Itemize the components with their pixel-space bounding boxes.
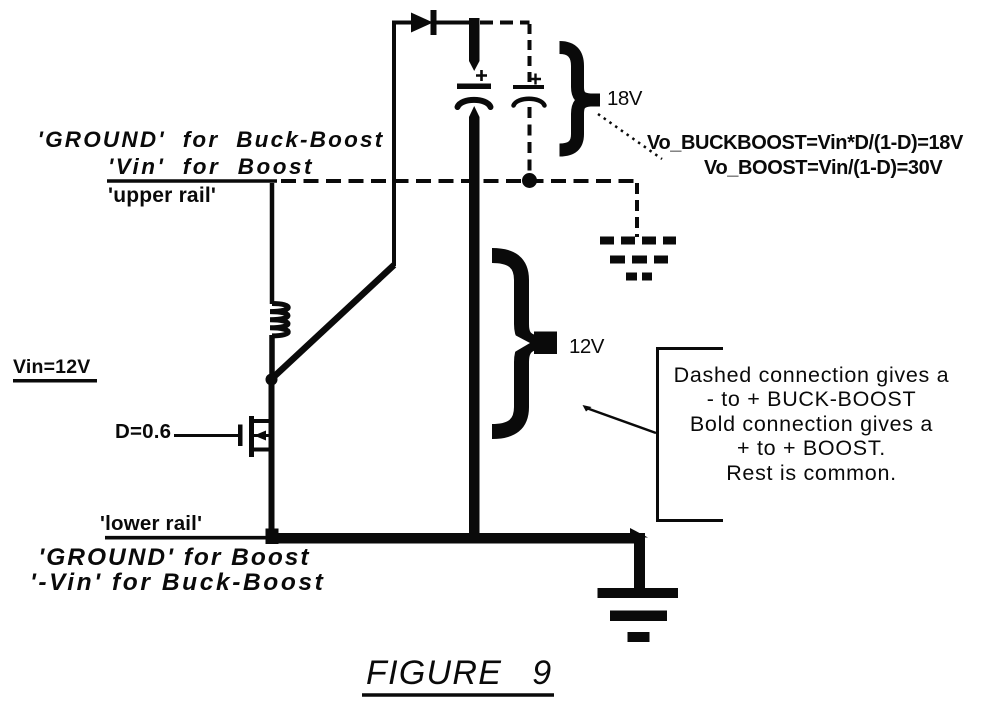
capacitor C1 plus sign: [476, 70, 487, 81]
wire bold vertical to ground: [634, 536, 645, 591]
diode D1: [411, 13, 433, 33]
wire dashed vertical to dashed ground: [635, 183, 639, 237]
capacitor C2 curved plate: [514, 99, 545, 106]
label 'Vin' for Boost: [30, 154, 392, 180]
node junction square lower rail: [266, 529, 279, 545]
transistor Q1 gate bar: [238, 425, 243, 447]
transistor Q1 channel bar: [249, 416, 254, 457]
brace 12V: [492, 256, 535, 432]
transistor Q1 gate lead: [174, 434, 238, 437]
arrowhead at end of bold rail: [630, 528, 648, 538]
formula Vo_BUCKBOOST: [647, 132, 963, 155]
formula Vo_BOOST: [704, 157, 942, 180]
wire lower rail bold: [268, 533, 645, 544]
label 'GROUND' for Boost: [30, 544, 319, 572]
wire dashed from bold bar to capacitor C2 top: [480, 21, 530, 25]
wire left vertical from upper rail to inductor: [270, 183, 275, 304]
label '-Vin' for Buck-Boost: [30, 569, 319, 597]
wire bold output vertical upper segment with taper to capacitor C1: [469, 18, 480, 71]
wire top horizontal cathode to bold output bar: [435, 21, 472, 25]
ground dashed (buck-boost output ground): [600, 237, 676, 245]
label D=0.6: [115, 420, 171, 444]
wire top horizontal anode side: [392, 21, 412, 25]
capacitor C2 top plate: [513, 85, 544, 89]
label 'lower rail': [100, 512, 202, 536]
wire dashed vertical into C2: [528, 24, 532, 83]
transistor Q1 source lead: [251, 448, 272, 452]
inductor L1: [270, 304, 288, 336]
label 18V: [607, 87, 642, 111]
wire upper rail solid: [107, 179, 277, 183]
node A junction dot (inductor / switch / diagonal): [266, 374, 278, 386]
brace 18V: [560, 48, 591, 151]
capacitor C1 curved plate: [458, 100, 491, 107]
capacitor C1 top plate: [457, 84, 491, 90]
underline of FIGURE 9: [362, 693, 554, 697]
ground bold (common ground): [598, 588, 679, 598]
note box frame (left bracket): [658, 349, 724, 521]
transistor Q1 drain lead: [251, 419, 272, 423]
wire diagonal bold from top-left corner down to inductor node: [272, 265, 395, 379]
label 'GROUND' for Buck-Boost: [30, 127, 392, 153]
wire from node down to lower rail (MOSFET drain/source path): [269, 379, 275, 537]
caption FIGURE 9: [366, 654, 552, 693]
wire lower rail thin left segment: [105, 536, 270, 540]
label 'upper rail': [108, 184, 216, 208]
underline of Vin=12V: [13, 379, 97, 383]
wire dashed from C2 down to upper rail node: [528, 107, 532, 176]
transistor Q1 body lead with arrow: [254, 434, 272, 437]
wire upper rail dashed extension: [281, 179, 639, 183]
dotted leader line from 18V brace to formula: [598, 114, 662, 159]
note box text: [657, 363, 966, 486]
label Vin=12V: [13, 356, 90, 379]
pointer line from note box to circuit: [585, 408, 656, 434]
capacitor C2 plus sign: [530, 74, 541, 85]
node junction dot on upper rail: [522, 173, 537, 188]
wire bold output vertical lower segment from C1 down to lower rail: [469, 106, 480, 543]
label 12V: [569, 335, 604, 359]
wire from inductor to node: [269, 335, 275, 376]
wire top-left vertical from top wire down to diagonal: [392, 21, 396, 267]
